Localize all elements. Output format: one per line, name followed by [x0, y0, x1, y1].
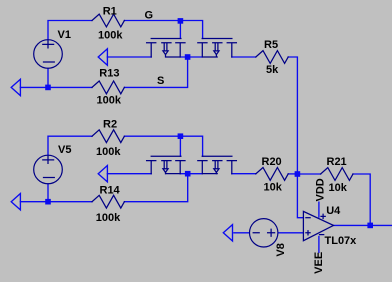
resistor R2 100k: [92, 130, 124, 143]
transistor M4: [198, 156, 237, 173]
svg-text:R14: R14: [100, 184, 121, 196]
op-amp vee minus mark: [320, 234, 324, 236]
wire R5 right, vertical bus down to opamp inv input: [288, 57, 303, 218]
port flag arrow stage1 ground: [11, 79, 20, 95]
wire ground rail left stage2: [20, 201, 92, 203]
node V5 minus junction: [45, 199, 51, 205]
wire V1 top lead: [48, 21, 92, 40]
port flag arrow FET3 input: [98, 166, 107, 182]
wire VEE pin: [318, 237, 320, 253]
svg-text:U4: U4: [326, 205, 341, 217]
svg-text:R5: R5: [264, 39, 278, 51]
wire FET1 input from port: [107, 56, 151, 58]
op-amp U1 triangle: [303, 211, 333, 240]
svg-text:100k: 100k: [97, 94, 122, 106]
svg-text:R20: R20: [262, 156, 282, 168]
svg-text:R1: R1: [103, 6, 117, 18]
op-amp input plus mark: [306, 231, 310, 235]
port flag arrow FET1 input: [98, 49, 107, 65]
wire FET2 out to R5: [232, 56, 256, 58]
svg-text:100k: 100k: [96, 146, 121, 158]
svg-text:TL07x: TL07x: [325, 235, 358, 247]
wire V1 bottom lead: [47, 68, 49, 87]
svg-text:VDD: VDD: [314, 178, 326, 201]
svg-text:G: G: [145, 9, 154, 21]
voltage source V5: [34, 155, 63, 184]
wire V5 bottom lead: [47, 184, 49, 202]
svg-text:100k: 100k: [98, 30, 123, 42]
svg-text:V5: V5: [58, 144, 71, 156]
svg-text:V8: V8: [275, 243, 287, 256]
wire R21 left lead: [297, 173, 320, 175]
svg-text:5k: 5k: [266, 64, 279, 76]
node S2 rail junction: [185, 171, 191, 177]
wire FET3 input from port: [107, 173, 151, 175]
op-amp input minus mark: [306, 217, 310, 219]
wire R14 right + riser to FET rail: [124, 174, 187, 202]
wire R20 right to node: [288, 173, 297, 175]
svg-text:10k: 10k: [329, 182, 348, 194]
svg-text:VEE: VEE: [313, 252, 325, 274]
svg-text:R13: R13: [99, 67, 119, 79]
wire V8 port to + input: [234, 232, 304, 234]
svg-text:R21: R21: [327, 156, 347, 168]
node V1 minus junction: [45, 85, 51, 91]
svg-text:V1: V1: [58, 29, 71, 41]
svg-text:100k: 100k: [96, 212, 121, 224]
transistor M2: [198, 39, 237, 58]
transistor M3: [147, 156, 185, 173]
port flag arrow V8: [223, 225, 232, 241]
resistor R1 100k: [92, 14, 124, 27]
node S rail junction stage1: [185, 54, 191, 60]
resistor R21 10k: [321, 168, 353, 181]
svg-text:10k: 10k: [264, 182, 283, 194]
wire R2 right to junction to FET4 gate bend: [124, 136, 202, 156]
op-amp vdd plus mark: [321, 214, 325, 218]
wire ground rail left stage1: [20, 86, 92, 88]
wire R21 right + drop to output: [353, 174, 370, 225]
resistor R20 10k: [256, 168, 288, 181]
resistor R13 100k: [92, 81, 124, 94]
port flag arrow stage2 ground: [11, 194, 20, 210]
transistor M1: [147, 39, 185, 58]
wire VDD pin: [318, 202, 320, 217]
wire output to edge: [334, 224, 392, 226]
resistor R5 5k: [256, 51, 288, 64]
svg-text:S: S: [157, 75, 164, 87]
wire V5 top lead: [48, 136, 92, 155]
node output junction: [367, 223, 373, 229]
resistor R14 100k: [92, 195, 124, 208]
wire R13 right + riser to FET rail: [124, 57, 187, 87]
wire FET rail link at S2 junction: [180, 173, 202, 175]
wire FET3 gate lead: [179, 136, 181, 156]
node G junction: [178, 18, 184, 24]
node G2 junction: [178, 133, 184, 139]
voltage source V1: [34, 40, 63, 69]
wire FET1 gate lead: [179, 21, 181, 39]
wire FET4 out to R20: [232, 173, 256, 175]
wire R1 right to G junction to FET2 gate bend: [124, 21, 202, 39]
wire FET rail link at S junction: [180, 56, 202, 58]
node summing junction: [295, 171, 301, 177]
svg-text:R2: R2: [103, 119, 117, 131]
voltage source V8: [250, 219, 278, 247]
